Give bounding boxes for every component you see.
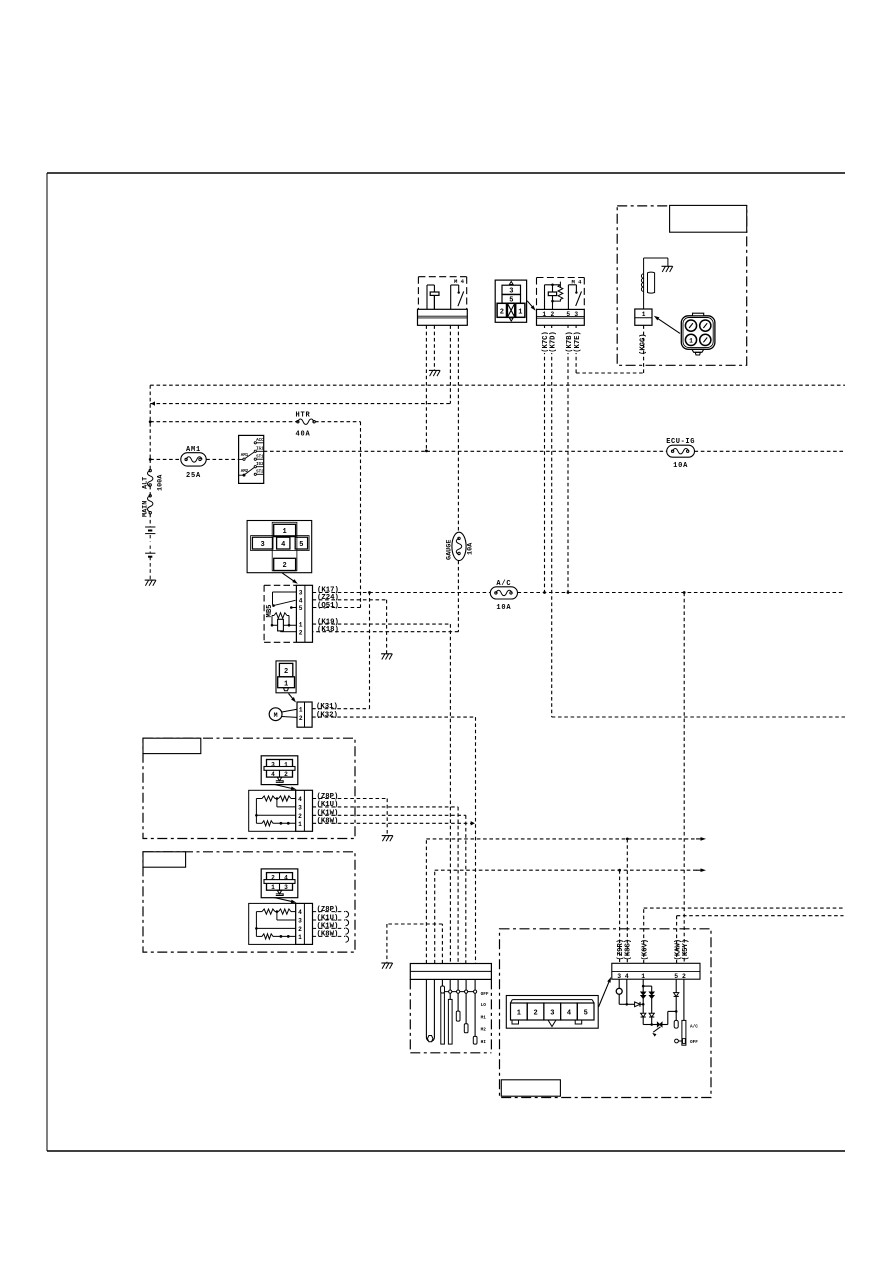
junction (battery/HTR) <box>149 420 152 423</box>
label (K7E) <box>572 328 580 353</box>
svg-text:(Q51): (Q51) <box>317 602 339 610</box>
wire battery to ground <box>149 557 151 580</box>
svg-text:ST1: ST1 <box>256 456 264 460</box>
blower resistor No.2 box <box>143 852 355 952</box>
wire AM1 fuse line <box>150 458 238 460</box>
svg-text:40A: 40A <box>295 430 310 438</box>
compressor / magnet clutch assembly box <box>617 206 747 365</box>
svg-text:3: 3 <box>509 288 513 296</box>
ground (relay 1) <box>429 369 440 371</box>
junction (A/C pin 4) <box>626 838 629 841</box>
svg-text:(K7D): (K7D) <box>550 331 558 353</box>
arrow to relay MB5 <box>282 573 295 582</box>
wire battery bus (MAIN) to right edge <box>150 384 845 386</box>
battery <box>145 527 155 557</box>
svg-text:(K1U): (K1U) <box>317 801 339 809</box>
connector face view (relay M4 socket: pins 3,5,2,X,1) <box>495 280 526 322</box>
svg-text:10A: 10A <box>496 604 511 612</box>
svg-text:(Z8P): (Z8P) <box>317 793 339 801</box>
svg-text:1: 1 <box>518 309 522 317</box>
junction marker (K8W/K32) <box>471 821 475 825</box>
relay (magnet clutch relay) M4 <box>537 278 585 310</box>
wire (K1W) net <box>313 815 466 963</box>
ground (battery) <box>145 579 156 581</box>
junction (battery/AM1) <box>149 458 152 461</box>
label (K7D) <box>548 328 556 353</box>
svg-text:AM1: AM1 <box>186 446 201 454</box>
svg-text:M: M <box>274 712 278 719</box>
svg-text:(K17): (K17) <box>317 586 339 594</box>
svg-text:5: 5 <box>566 311 570 318</box>
blower resistor No.1 box <box>143 738 355 838</box>
svg-text:2: 2 <box>298 813 302 820</box>
svg-text:M1: M1 <box>481 1015 487 1020</box>
blower resistor No.1 element network <box>249 790 296 831</box>
svg-text:3: 3 <box>574 311 578 318</box>
fuse HTR 40A <box>297 421 299 423</box>
arrow to A/C switch connector <box>599 981 610 1007</box>
svg-text:100A: 100A <box>157 474 165 491</box>
heater blower switch box <box>410 979 491 1052</box>
A/C switch internals <box>616 979 686 1045</box>
wire (K7D) wire <box>552 325 845 717</box>
svg-text:LO: LO <box>481 1003 487 1008</box>
svg-text:M2: M2 <box>481 1028 487 1033</box>
wire (K6V) net <box>644 908 844 963</box>
label (K7B) <box>564 328 572 353</box>
svg-text:(K7E): (K7E) <box>574 331 582 353</box>
ground (Z24) <box>381 653 392 655</box>
svg-text:2: 2 <box>284 668 288 676</box>
ignition switch <box>239 435 264 483</box>
svg-text:ECU-IG: ECU-IG <box>666 438 695 446</box>
continuation arrow 2 <box>696 869 702 871</box>
ground (blower switch) <box>381 962 392 964</box>
svg-text:3: 3 <box>550 1009 554 1017</box>
wire (Z8P) net to ground <box>313 799 388 836</box>
wire (Z24) net to ground <box>313 600 387 654</box>
svg-text:3: 3 <box>284 884 288 891</box>
relay (blower motor relay) M4 <box>418 277 466 310</box>
svg-text:ST2: ST2 <box>256 471 264 475</box>
svg-text:1: 1 <box>298 934 302 941</box>
svg-text:10A: 10A <box>467 542 475 555</box>
junction (K17/K31 branch) <box>368 591 371 594</box>
fuse A/C 10A <box>490 587 517 599</box>
svg-text:4: 4 <box>284 875 288 882</box>
svg-text:2: 2 <box>299 629 303 636</box>
wire (K8W) net <box>313 822 472 824</box>
blower resistor No.2 connector face view (2 4 / 1 3) <box>261 869 298 898</box>
svg-text:1: 1 <box>299 622 303 629</box>
wire relay1 pin wire to IG1 line <box>425 325 427 450</box>
arrow from face view to (KGG) connector <box>657 318 680 333</box>
svg-text:5: 5 <box>509 296 513 304</box>
svg-text:5: 5 <box>299 541 303 549</box>
wire (K32) net <box>312 717 475 963</box>
svg-text:5: 5 <box>674 973 678 980</box>
svg-text:4: 4 <box>299 597 303 604</box>
wire A/C switch feed drop (pin 2) <box>683 593 685 964</box>
svg-text:(K6V): (K6V) <box>641 939 649 961</box>
ground (Z8P) <box>382 835 393 837</box>
svg-text:2: 2 <box>550 311 554 318</box>
wire (K31) net <box>312 593 369 709</box>
arrow to resistor connector <box>275 898 293 902</box>
wire relay1 pin wire to bus2 <box>449 325 451 403</box>
svg-text:(K1W): (K1W) <box>317 810 339 818</box>
svg-text:M 4: M 4 <box>454 278 465 285</box>
wire (KAW) net <box>677 916 844 964</box>
wire blower switch ground net <box>387 924 443 964</box>
svg-text:(K5Y): (K5Y) <box>682 939 690 961</box>
box2 wire stubs with open ends <box>313 911 349 942</box>
fuse AM1 25A <box>181 453 206 466</box>
compressor connector face view (4-pin round) <box>681 313 715 355</box>
wire relay1 pin / GAUGE / (K18) net <box>313 325 459 631</box>
svg-text:4: 4 <box>271 771 275 778</box>
svg-text:ACC: ACC <box>256 439 264 443</box>
fuse ECU-IG 10A <box>667 445 695 457</box>
svg-text:A/C: A/C <box>496 580 511 588</box>
junction (A/C switch feed) <box>683 591 686 594</box>
svg-text:1: 1 <box>641 973 645 980</box>
wire IG1 / ECU-IG line <box>264 450 845 452</box>
relay 2 connector strip, pins 1 2 5 3 <box>537 309 585 325</box>
svg-text:GAUGE: GAUGE <box>446 540 454 560</box>
svg-text:2: 2 <box>500 309 504 317</box>
svg-text:2: 2 <box>298 926 302 933</box>
A/C switch title block <box>501 1080 560 1096</box>
svg-text:M 4: M 4 <box>571 279 582 286</box>
svg-text:3: 3 <box>298 918 302 925</box>
junction (A/C pin 3) <box>618 869 621 872</box>
junction marker bus2 <box>151 401 155 405</box>
blower motor M <box>269 708 297 721</box>
A/C switch connector face view (1-5) <box>506 996 598 1029</box>
svg-text:3: 3 <box>260 541 264 549</box>
wire relay1 pin wire to ground <box>433 325 435 370</box>
fusible link ALT 100A <box>149 469 151 471</box>
relay 2 coil resistor <box>553 285 563 301</box>
svg-text:HTR: HTR <box>295 411 310 419</box>
heater relay MB5 <box>264 585 296 642</box>
wire (K1U) net <box>313 807 459 964</box>
svg-text:10A: 10A <box>673 462 688 470</box>
arrow to motor connector <box>289 694 294 700</box>
junction block connector face view (pins 1,3,4,5,2) <box>247 521 312 573</box>
svg-text:1: 1 <box>271 884 275 891</box>
svg-text:IG1: IG1 <box>256 448 264 452</box>
svg-text:1: 1 <box>282 528 286 536</box>
motor connector strip, pins 1 2 <box>297 702 312 727</box>
svg-text:(Z8P): (Z8P) <box>317 906 339 914</box>
svg-text:(K18): (K18) <box>317 626 339 634</box>
compressor title block <box>670 205 747 232</box>
junction (IG1/relay1) <box>425 450 428 453</box>
svg-text:2: 2 <box>271 875 275 882</box>
svg-text:3: 3 <box>299 590 303 597</box>
arrow to relay M4 <box>527 301 533 308</box>
junction (K7C) <box>543 591 546 594</box>
svg-text:OFF: OFF <box>690 1040 698 1045</box>
svg-text:(K8S): (K8S) <box>625 939 633 961</box>
wire A/C pin3 drop <box>619 870 621 963</box>
svg-text:1: 1 <box>517 1009 521 1017</box>
svg-text:IG2: IG2 <box>256 463 264 467</box>
svg-text:1: 1 <box>542 311 546 318</box>
svg-text:HI: HI <box>481 1040 487 1045</box>
label (K7C) <box>541 328 549 353</box>
svg-text:3: 3 <box>617 973 621 980</box>
blower resistor No.1 title block <box>143 738 201 753</box>
wire switch wire 2 / A/C pin3 line <box>435 870 698 963</box>
svg-text:A/C: A/C <box>690 1025 698 1030</box>
A/C switch box <box>500 929 712 1098</box>
svg-text:(K31): (K31) <box>316 703 338 711</box>
svg-text:1: 1 <box>689 338 693 345</box>
wire (K7E) wire to compressor <box>576 325 644 373</box>
svg-text:(K1U): (K1U) <box>317 914 339 922</box>
svg-text:1: 1 <box>298 821 302 828</box>
svg-text:5: 5 <box>584 1009 588 1017</box>
svg-text:4: 4 <box>281 541 285 549</box>
wire (K7C) wire <box>544 325 546 592</box>
blower resistor No.2 element network <box>249 903 296 944</box>
fuse GAUGE 10A (vertical) <box>452 532 466 560</box>
wire (K17) / A/C fuse net <box>313 592 846 594</box>
blower switch internals <box>426 979 477 1044</box>
svg-text:3: 3 <box>271 761 275 768</box>
blower resistor No.1 connector face view (3 1 / 4 2) <box>261 756 298 785</box>
compressor connector (KGG) <box>643 291 645 309</box>
svg-text:1: 1 <box>284 680 288 688</box>
wire battery feed vertical <box>149 385 151 527</box>
magnet clutch coil <box>641 258 668 293</box>
wire bus to relay1 pin 3 <box>150 403 450 405</box>
wire switch wire 1 / A/C pin4 line <box>426 839 697 964</box>
svg-text:4: 4 <box>298 796 302 803</box>
svg-text:(K32): (K32) <box>316 711 338 719</box>
svg-text:3: 3 <box>298 805 302 812</box>
junction (K7B) <box>567 591 570 594</box>
continuation arrow 1 <box>696 838 702 840</box>
svg-text:MB5: MB5 <box>266 605 274 618</box>
svg-text:2: 2 <box>282 562 286 570</box>
svg-text:(K8W): (K8W) <box>317 818 339 826</box>
svg-text:1: 1 <box>642 311 646 318</box>
svg-text:MAIN: MAIN <box>142 501 150 517</box>
svg-text:1: 1 <box>299 706 303 713</box>
wire (K19) net to blower switch <box>313 624 451 963</box>
wire (KGG) wire <box>643 325 645 373</box>
svg-text:4: 4 <box>298 909 302 916</box>
svg-text:ALT: ALT <box>142 477 150 489</box>
blower resistor No.2 title block <box>143 852 186 867</box>
arrow to resistor connector <box>275 785 293 789</box>
blower switch connector bar <box>410 964 491 980</box>
svg-text:(K8W): (K8W) <box>317 931 339 939</box>
relay 1 connector strip <box>418 309 468 325</box>
svg-text:(K1W): (K1W) <box>317 923 339 931</box>
wire (K7B) wire <box>567 325 569 592</box>
svg-text:4: 4 <box>625 973 629 980</box>
fusible link MAIN <box>149 495 151 497</box>
svg-text:1: 1 <box>284 761 288 768</box>
svg-text:25A: 25A <box>186 472 201 480</box>
svg-text:2: 2 <box>682 973 686 980</box>
blower resistor No.1 connector strip, pins 4 3 2 1 <box>296 790 313 831</box>
svg-text:OFF: OFF <box>481 992 489 997</box>
relay 2 switch <box>568 285 581 310</box>
svg-text:2: 2 <box>533 1009 537 1017</box>
svg-text:2: 2 <box>284 771 288 778</box>
ground (compressor internal) <box>662 265 673 267</box>
blower motor connector face view (pins 2,1) <box>276 661 296 693</box>
A/C switch connector strip, pins 3 4 1 5 2 <box>612 963 700 979</box>
relay MB5 connector strip, pins 3 4 5 1 2 <box>296 585 312 642</box>
wire A/C pin4 drop <box>626 839 628 963</box>
wire HTR fuse line / (Q51) net <box>150 422 360 608</box>
svg-text:5: 5 <box>299 605 303 612</box>
svg-text:2: 2 <box>299 715 303 722</box>
blower resistor No.2 connector strip, pins 4 3 2 1 <box>296 903 313 944</box>
svg-text:4: 4 <box>567 1009 571 1017</box>
